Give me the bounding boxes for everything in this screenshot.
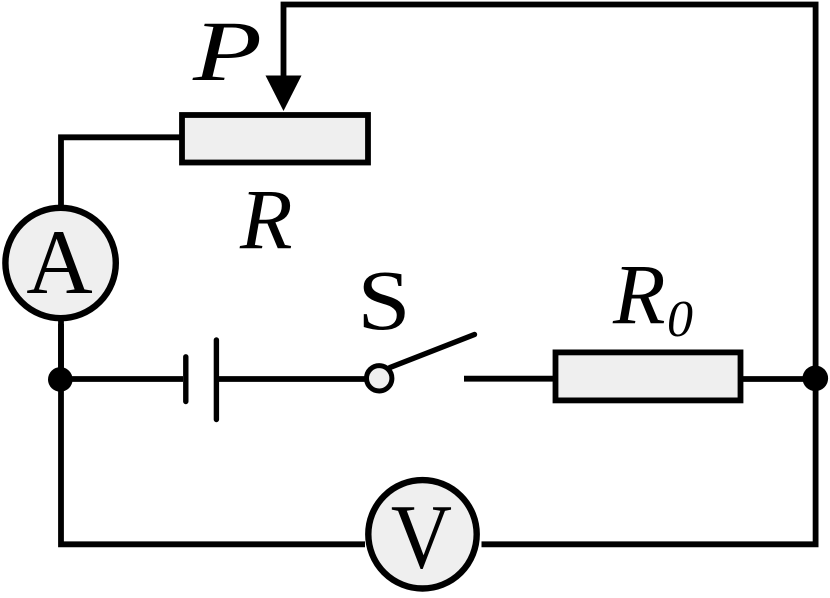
svg-text:V: V — [391, 486, 452, 588]
svg-text:R: R — [239, 171, 293, 267]
svg-text:S: S — [357, 253, 410, 348]
svg-text:0: 0 — [667, 291, 693, 348]
svg-text:R: R — [612, 246, 666, 342]
svg-text:P: P — [192, 4, 262, 99]
svg-text:A: A — [26, 211, 92, 313]
